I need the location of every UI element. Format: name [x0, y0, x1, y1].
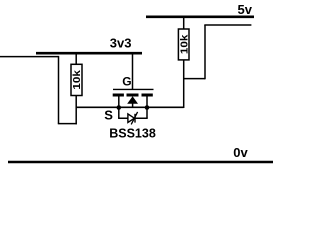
wire: low-side input vertical [58, 56, 60, 124]
wire: body arrow stub [132, 103, 134, 107]
diode D1 (body diode) triangle [128, 114, 134, 123]
5v rail [146, 15, 254, 18]
wire: body diode right stub [146, 107, 148, 118]
wire: source net horizontal [76, 106, 184, 108]
transistor Q1 BSS138 gate line [113, 88, 154, 90]
svg-text:0v: 0v [233, 145, 248, 160]
wire: R2 top lead [183, 17, 185, 29]
wire: R2 bottom lead / drain [183, 60, 185, 108]
wire: source bar lead [118, 97, 120, 108]
diode D1 cathode slash [131, 112, 137, 125]
wire: body diode left stub [118, 107, 120, 118]
transistor Q1 drain bar [142, 94, 153, 97]
junction dot: source node [117, 105, 122, 110]
svg-text:3v3: 3v3 [110, 36, 132, 51]
svg-text:S: S [104, 108, 113, 123]
svg-text:BSS138: BSS138 [109, 126, 156, 141]
svg-text:5v: 5v [238, 2, 253, 17]
wire: low-side input horizontal [0, 56, 59, 58]
resistor R1 10k (3v3 pull-up) [71, 64, 83, 95]
wire: R1 bottom lead [75, 96, 77, 125]
wire: high-side branch horizontal [183, 78, 205, 80]
wire: drain bar lead [146, 97, 148, 108]
transistor Q1 source bar [113, 94, 124, 97]
transistor Q1 body bar [127, 94, 139, 97]
0v rail [8, 161, 273, 164]
wire: high-side output [204, 24, 251, 26]
junction dot: drain node [145, 105, 150, 110]
wire: gate to 3v3 rail [132, 53, 134, 89]
svg-text:10k: 10k [71, 70, 83, 90]
transistor Q1 body arrow [127, 96, 138, 103]
wire: R1 top lead [75, 53, 77, 65]
wire: low-side bottom jog [58, 123, 77, 125]
svg-text:10k: 10k [178, 34, 190, 54]
wire: high-side branch vertical [204, 25, 206, 79]
resistor R2 10k (5v pull-up) [178, 29, 190, 60]
3v3 rail [36, 52, 142, 55]
diode D1 cathode bar [134, 114, 136, 123]
svg-text:G: G [122, 75, 131, 89]
wire: body diode bottom [118, 117, 148, 119]
